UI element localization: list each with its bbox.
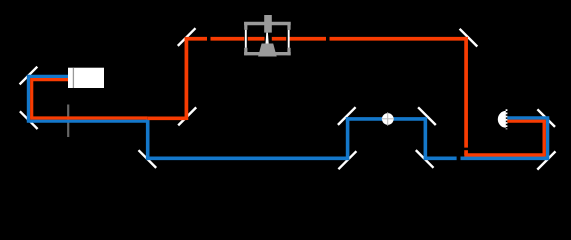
mirror M12 above detector leg xyxy=(537,109,555,127)
wire red top rail segment 2 xyxy=(211,37,245,41)
mirror M6 blue drop to bottom rail xyxy=(139,150,157,168)
mirror M4 red upper corner xyxy=(178,28,196,46)
modulator frame right lower stub xyxy=(287,48,290,55)
wire red top rail segment 1 xyxy=(185,37,207,41)
mirror M5 top-right corner xyxy=(460,29,478,47)
modulator left post xyxy=(245,30,247,48)
waveplate vertical gray line xyxy=(67,105,69,138)
wire blue bottom rail right with junction gap xyxy=(424,157,457,161)
wire blue beam from laser to mirror M1 (paired) xyxy=(28,75,68,78)
modulator frame top bar xyxy=(244,22,291,25)
wire blue beam along lower-left horizontal (paired) xyxy=(27,120,148,123)
mirror M7 bridge lower-left xyxy=(338,151,356,169)
wire blue bridge up leg xyxy=(346,119,350,160)
mirror M11 bottom-right corner xyxy=(537,151,555,169)
laser box xyxy=(68,68,104,88)
modulator bottom trapezoid xyxy=(258,44,277,57)
modulator frame left upper stub xyxy=(244,22,247,30)
modulator frame left lower stub xyxy=(244,48,247,55)
wire blue bottom rail left xyxy=(146,157,348,161)
mirror M8 bridge upper-left xyxy=(338,107,356,125)
wire red into detector (paired) xyxy=(507,120,546,123)
wire red beam down left side (paired) xyxy=(30,78,33,118)
wire red right vertical short stub into corner xyxy=(464,150,468,155)
modulator top block xyxy=(264,15,272,33)
wire red top rail segment 6 xyxy=(330,37,467,41)
mirror M9 bridge upper-right xyxy=(418,107,436,125)
wire red beam up to top rail xyxy=(185,39,189,120)
modulator white tip xyxy=(266,33,269,44)
wire red bottom rail right (paired) xyxy=(464,153,544,156)
photodetector semicircle xyxy=(498,111,506,128)
photodetector hatched face xyxy=(506,109,508,129)
laser box divider line xyxy=(72,68,74,88)
wire blue bridge top xyxy=(346,117,426,121)
mirror M10 bridge lower-right xyxy=(416,150,434,168)
wire red up leg to detector level (paired) xyxy=(543,121,546,156)
wire red top rail segment 4 xyxy=(272,37,286,41)
modulator right post xyxy=(288,30,290,48)
wire red beam from laser to mirror M1 (paired) xyxy=(32,78,68,81)
mirror M1 top-left xyxy=(20,67,38,85)
wire blue bridge down leg xyxy=(424,117,428,158)
wire blue into detector (paired) xyxy=(507,116,549,119)
wire red top rail segment 3 xyxy=(248,37,265,41)
modulator frame right upper stub xyxy=(287,22,290,30)
wire blue beam down to bottom rail xyxy=(146,119,150,158)
wire blue up leg to detector level (paired) xyxy=(546,118,549,160)
modulator frame bottom bar xyxy=(244,52,291,55)
iris circle with crosshair xyxy=(382,113,394,125)
wire red top rail segment 5 xyxy=(289,37,326,41)
wire red beam along lower-left horizontal (paired) xyxy=(30,116,148,119)
mirror M3 red lower corner xyxy=(178,107,196,125)
wire red beam lower horizontal solo part xyxy=(148,116,187,120)
wire blue beam down left side (paired) xyxy=(27,75,30,121)
mirror M2 bottom-left xyxy=(20,111,38,129)
wire red right vertical upper part xyxy=(464,37,468,148)
